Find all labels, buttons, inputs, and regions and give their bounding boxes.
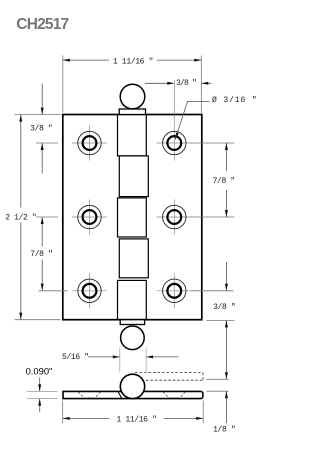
top ball finial bbox=[120, 84, 145, 109]
knuckle segment 3 bbox=[118, 198, 147, 237]
bottom view leaf curl left bbox=[118, 391, 122, 398]
bottom finial cap bbox=[120, 320, 144, 325]
knuckle segment 4 bbox=[119, 239, 148, 278]
dim 3/8 right bottom bbox=[225, 262, 227, 379]
hole H2 crosshair bbox=[157, 126, 192, 161]
svg-text:CH2517: CH2517 bbox=[16, 16, 68, 33]
hole H1 top-left bbox=[78, 131, 101, 154]
hole H6 bottom-right bbox=[163, 279, 186, 302]
bottom edge right extension bbox=[207, 319, 235, 321]
svg-text:0.090": 0.090" bbox=[26, 365, 53, 376]
hole H1 crosshair bbox=[72, 126, 107, 161]
bottom view leaf bar bbox=[63, 391, 203, 398]
dim width bottom 1 11/16 bbox=[63, 417, 204, 419]
hinge body outline bbox=[63, 115, 202, 320]
dim 1/8 ticks bbox=[207, 379, 229, 391]
dim width top: extension lines bbox=[63, 56, 202, 114]
hole H2 top-right bbox=[163, 131, 186, 154]
dim 3/8 left bbox=[41, 84, 43, 174]
hole H6 crosshair bbox=[157, 273, 192, 308]
row1 left extension bbox=[36, 142, 58, 144]
dim 2 1/2 left: extension lines bbox=[15, 115, 61, 320]
svg-text:1 11/16 ": 1 11/16 " bbox=[116, 416, 156, 425]
hole H4 mid-right bbox=[163, 205, 186, 228]
bottom view countersink left (hidden) bbox=[78, 392, 100, 398]
knuckle segment 5 bbox=[118, 280, 147, 319]
svg-text:3/8 ": 3/8 " bbox=[176, 79, 196, 88]
bottom ball finial bbox=[121, 326, 145, 350]
row3 left extension bbox=[39, 290, 68, 292]
svg-text:7/8 ": 7/8 " bbox=[213, 177, 235, 186]
row3 right extension bbox=[191, 290, 234, 292]
dim width top: dimension line 1 11/16 bbox=[63, 59, 202, 61]
knuckle extension lines bbox=[120, 348, 146, 372]
hole H3 mid-left bbox=[78, 205, 101, 228]
dim 1/8 lower arrow line bbox=[225, 391, 227, 423]
bottom view knuckle circle bbox=[120, 374, 144, 398]
leader diameter 3/16 bbox=[175, 101, 209, 139]
dim 7/8 right bbox=[225, 143, 227, 217]
hole H5 bottom-left bbox=[78, 279, 101, 302]
knuckle segment 2 bbox=[119, 156, 148, 197]
hole H5 crosshair bbox=[72, 273, 107, 308]
knuckle segment 1 bbox=[118, 115, 147, 156]
bottom view countersink right (hidden) bbox=[163, 392, 185, 398]
row2 right extension bbox=[191, 216, 235, 218]
row2 left extension bbox=[36, 216, 58, 218]
row1 right extension bbox=[191, 142, 235, 144]
svg-text:3/8 ": 3/8 " bbox=[30, 125, 52, 134]
bottom view folded leaf (hidden) bbox=[135, 373, 203, 381]
svg-text:2 1/2 ": 2 1/2 " bbox=[5, 214, 36, 223]
svg-text:5/16 ": 5/16 " bbox=[62, 353, 89, 362]
dim 3/8 top-right bbox=[145, 82, 212, 84]
svg-text:1/8 ": 1/8 " bbox=[213, 426, 235, 435]
svg-text:3/8 ": 3/8 " bbox=[213, 303, 235, 312]
top finial cap bbox=[119, 109, 145, 115]
dim 7/8 left bbox=[41, 217, 43, 291]
hole centerline extension bbox=[173, 80, 175, 125]
svg-text:Ø 3/16 ": Ø 3/16 " bbox=[212, 96, 258, 105]
svg-text:1 11/16 ": 1 11/16 " bbox=[113, 57, 153, 66]
svg-text:7/8 ": 7/8 " bbox=[30, 250, 52, 259]
dim width bottom extension lines bbox=[63, 401, 204, 424]
hole H4 crosshair bbox=[157, 200, 192, 235]
hole H3 crosshair bbox=[72, 200, 107, 235]
dim 2 1/2 left: dimension line bbox=[20, 115, 22, 320]
